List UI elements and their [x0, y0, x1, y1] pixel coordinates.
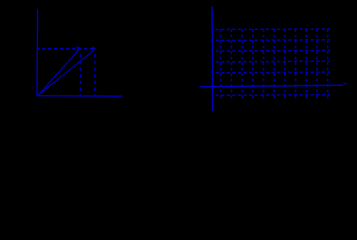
- dashed grid column 2: [230, 29, 232, 98]
- dashed grid column 5: [263, 29, 265, 98]
- dashed grid column 9: [305, 29, 307, 98]
- dashed horizontal projection line: [38, 48, 96, 50]
- dashed grid column 6: [273, 29, 275, 98]
- vector A arrowhead: [76, 46, 81, 50]
- dashed grid row 4: [215, 60, 330, 63]
- dashed grid column 1: [220, 29, 222, 98]
- dashed grid column 8: [295, 29, 297, 98]
- dashed grid row 5: [215, 71, 330, 74]
- left plot x-axis: [37, 95, 122, 98]
- dashed grid column 3: [241, 29, 243, 98]
- dashed grid row 3: [215, 49, 330, 52]
- vector B arrowhead: [91, 47, 96, 51]
- dashed grid column 11: [327, 29, 329, 98]
- vector A shaft: [38, 50, 79, 95]
- vector B shaft: [38, 51, 94, 96]
- left plot y-axis: [36, 9, 39, 96]
- dashed grid column 7: [284, 29, 286, 98]
- dashed vertical drop from vector B tip: [94, 51, 96, 96]
- dashed grid row 1: [215, 28, 330, 31]
- dashed vertical drop from vector A tip: [80, 51, 82, 96]
- dashed grid row 2: [215, 39, 330, 42]
- dashed grid row 6 (below x-axis): [215, 94, 330, 97]
- right plot x-axis: [200, 85, 343, 86]
- dashed grid column 10: [316, 29, 318, 98]
- right plot y-axis: [211, 7, 214, 111]
- dashed grid column 4: [252, 29, 254, 98]
- small stray dash at right end of x-axis: [343, 82, 346, 85]
